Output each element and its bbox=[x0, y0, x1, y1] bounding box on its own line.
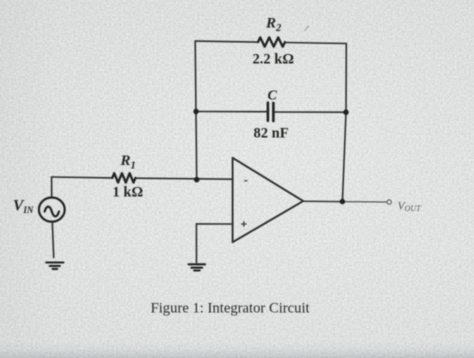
svg-text:1 kΩ: 1 kΩ bbox=[113, 185, 144, 201]
svg-text:82 nF: 82 nF bbox=[254, 126, 289, 142]
svg-text:C: C bbox=[268, 89, 278, 104]
svg-text:2.2 kΩ: 2.2 kΩ bbox=[253, 52, 294, 68]
svg-text:Figure 1: Integrator Circuit: Figure 1: Integrator Circuit bbox=[151, 300, 310, 316]
